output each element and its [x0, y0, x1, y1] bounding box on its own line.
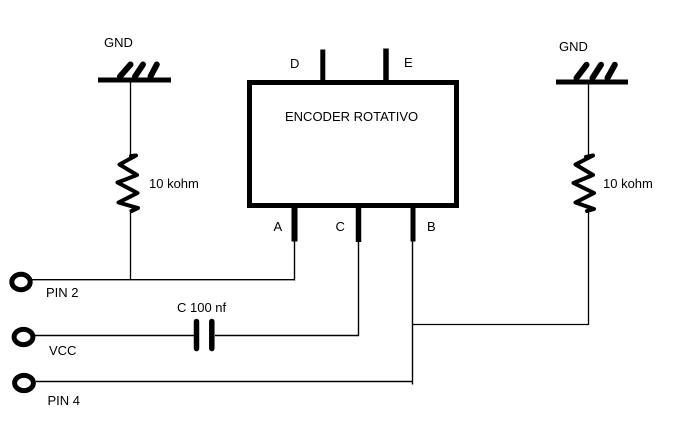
svg-text:D: D [290, 56, 299, 71]
capacitor C 100 nf [197, 322, 212, 349]
wire: pin B vertical down to PIN 4 net [412, 240, 414, 385]
svg-text:GND: GND [104, 35, 133, 50]
terminal PIN 2 [12, 274, 30, 289]
svg-text:PIN 2: PIN 2 [46, 285, 79, 300]
svg-text:PIN 4: PIN 4 [48, 393, 81, 408]
svg-text:C: C [336, 219, 345, 234]
pin D stub [320, 50, 325, 84]
pin A stub [292, 205, 298, 242]
svg-text:A: A [274, 219, 283, 234]
wire: PIN 2 horizontal net to pin A [32, 279, 295, 281]
svg-text:C 100 nf: C 100 nf [177, 300, 227, 315]
svg-text:E: E [404, 55, 413, 70]
wire: right GND to resistor R-right top [588, 83, 590, 156]
ground symbol GND (left) [98, 65, 171, 81]
wire: VCC terminal to capacitor [35, 335, 195, 337]
wire: capacitor to pin C junction [215, 335, 359, 337]
pin E stub [383, 49, 389, 84]
resistor 10 kohm (left) [118, 156, 139, 212]
terminal PIN 4 [15, 375, 34, 390]
wire: pin C vertical down to VCC net [358, 240, 360, 336]
wire: resistor R-right bottom vertical [588, 210, 590, 325]
encoder box [250, 83, 457, 206]
wire: left GND to resistor R-left top [130, 82, 132, 156]
wire: junction pin B to resistor R-right (horizontal) [413, 324, 589, 326]
svg-text:10 kohm: 10 kohm [603, 176, 653, 191]
pin C stub [356, 205, 362, 242]
terminal VCC [14, 329, 33, 344]
pin B stub [411, 205, 416, 242]
wire: PIN 4 horizontal net to pin B [36, 381, 413, 383]
svg-text:B: B [427, 219, 436, 234]
ground symbol GND (right) [556, 65, 628, 82]
resistor 10 kohm (right) [574, 156, 595, 212]
svg-text:VCC: VCC [49, 343, 76, 358]
wire: resistor R-left bottom to PIN 2 net [130, 210, 132, 280]
wire: pin A vertical down to PIN 2 net [294, 240, 296, 280]
svg-text:10 kohm: 10 kohm [149, 176, 199, 191]
svg-text:GND: GND [559, 39, 588, 54]
svg-text:ENCODER ROTATIVO: ENCODER ROTATIVO [285, 109, 418, 124]
